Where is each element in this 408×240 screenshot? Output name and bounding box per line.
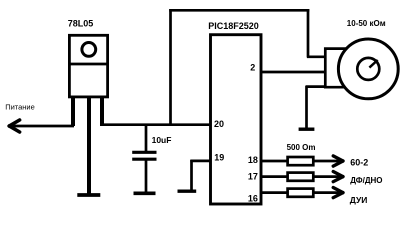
svg-text:ДФ/ДНО: ДФ/ДНО [350,176,382,185]
svg-text:500 Om: 500 Om [287,143,316,152]
svg-text:16: 16 [248,194,258,204]
svg-text:Питание: Питание [5,103,35,112]
svg-text:PIC18F2520: PIC18F2520 [208,21,259,31]
svg-text:2: 2 [250,63,255,73]
svg-text:78L05: 78L05 [68,19,94,29]
svg-text:20: 20 [214,119,224,129]
svg-text:17: 17 [248,171,258,181]
svg-text:ДУИ: ДУИ [350,195,368,205]
svg-text:19: 19 [214,153,224,163]
svg-text:10uF: 10uF [152,135,172,145]
svg-text:10-50 кОм: 10-50 кОм [347,19,386,28]
svg-text:60-2: 60-2 [350,157,368,167]
svg-text:18: 18 [248,155,258,165]
